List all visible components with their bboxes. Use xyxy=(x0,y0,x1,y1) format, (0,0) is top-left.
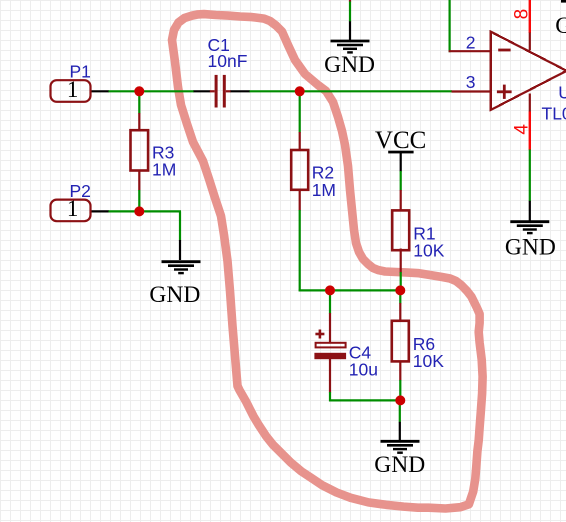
svg-text:8: 8 xyxy=(511,9,532,20)
svg-text:GND: GND xyxy=(149,282,200,308)
svg-text:VCC: VCC xyxy=(375,127,426,154)
svg-text:4: 4 xyxy=(511,124,532,135)
svg-text:U1: U1 xyxy=(558,83,566,103)
svg-text:GND: GND xyxy=(374,452,425,478)
svg-text:10u: 10u xyxy=(349,360,378,380)
svg-text:3: 3 xyxy=(466,72,476,92)
svg-text:1: 1 xyxy=(67,196,79,221)
svg-text:2: 2 xyxy=(466,33,476,53)
svg-text:GND: GND xyxy=(324,52,375,78)
svg-text:1M: 1M xyxy=(312,180,336,200)
svg-text:TL07: TL07 xyxy=(542,104,566,124)
svg-text:10K: 10K xyxy=(413,351,444,371)
svg-text:1M: 1M xyxy=(152,160,176,180)
svg-text:10nF: 10nF xyxy=(208,51,248,71)
svg-text:10K: 10K xyxy=(413,241,444,261)
svg-text:GND: GND xyxy=(555,13,566,39)
svg-text:1: 1 xyxy=(67,77,79,102)
svg-text:GND: GND xyxy=(505,235,556,261)
